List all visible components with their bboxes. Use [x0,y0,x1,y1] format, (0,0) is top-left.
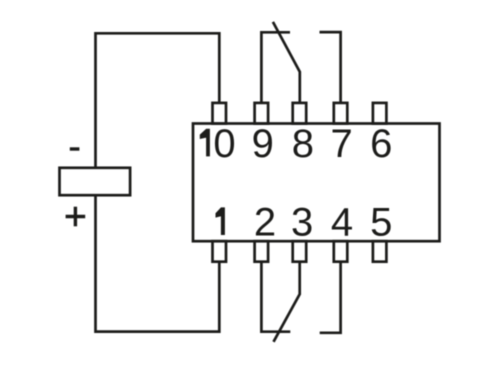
switch S1 blade to pin 8 [273,22,300,103]
open terminal from pin 7 [320,32,341,103]
battery B1 [60,168,131,195]
svg-text:7: 7 [330,122,352,166]
wire battery plus to pin1 [96,195,220,331]
pin 2 [255,241,269,262]
pin 6 [373,103,387,124]
pin label 10 : digit 1 drawn as path (no foot serif) [200,129,210,157]
svg-text:3: 3 [291,201,313,245]
battery minus label [70,147,80,150]
pin label 1 : drawn as path (no foot serif) [216,207,225,235]
pin 7 [334,103,348,124]
svg-text:5: 5 [370,201,392,245]
pin 4 [334,241,348,262]
svg-text:9: 9 [252,122,274,166]
relay body U1 [193,124,440,242]
switch S2 fixed contact from pin 2 [261,262,290,332]
pin 1 [213,241,227,262]
battery plus label [66,207,86,227]
pin 3 [293,241,307,262]
pin 5 [373,241,387,262]
wire pin10 to battery minus [96,33,220,166]
pin 8 [293,103,307,124]
open terminal from pin 4 [320,262,341,333]
switch S2 blade to pin 3 [274,262,300,342]
svg-text:0: 0 [213,122,235,166]
svg-text:8: 8 [292,122,314,166]
pin 9 [255,103,269,124]
svg-text:4: 4 [331,201,353,245]
svg-text:6: 6 [370,122,392,166]
svg-text:2: 2 [254,201,276,245]
switch S1 fixed contact from pin 9 [261,32,290,103]
pin 10 [213,103,227,124]
